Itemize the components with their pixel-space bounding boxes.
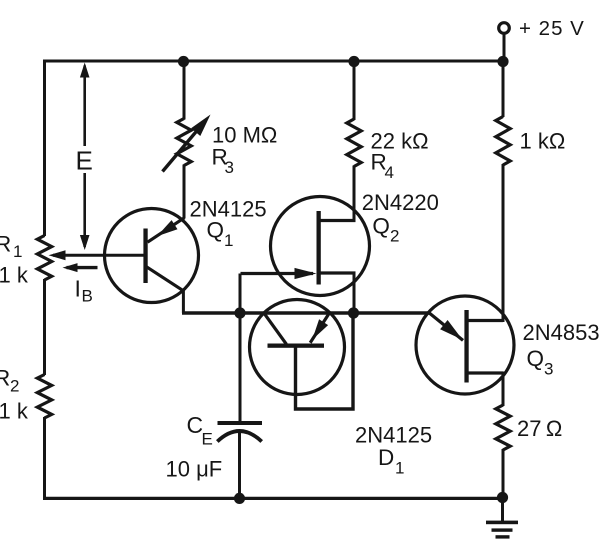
svg-text:B: B xyxy=(82,287,93,306)
svg-text:R: R xyxy=(0,366,10,391)
svg-text:3: 3 xyxy=(544,360,553,379)
ground xyxy=(486,498,518,539)
transistor Q2 channel bar xyxy=(317,211,321,285)
transistor Q3 circle xyxy=(416,296,514,394)
wire R3 upper xyxy=(183,61,186,120)
svg-text:4: 4 xyxy=(385,163,394,182)
node R4 top junction xyxy=(348,56,359,67)
svg-text:1: 1 xyxy=(13,242,22,261)
resistor R4 xyxy=(347,119,361,167)
wire D1 base loop xyxy=(296,313,354,409)
transistor Q1 circle xyxy=(105,209,199,303)
potentiometer R1 xyxy=(37,236,51,281)
wire R4 upper xyxy=(353,61,356,120)
transistor D1 base bar xyxy=(268,344,325,348)
svg-text:2N4125: 2N4125 xyxy=(190,197,267,222)
transistor Q3 base bar xyxy=(464,310,468,383)
node top-right junction xyxy=(497,56,508,67)
transistor D1 collector lead xyxy=(264,314,286,345)
node R3 top junction xyxy=(178,56,189,67)
wire Q2 source drop xyxy=(353,273,356,313)
transistor Q2 circle xyxy=(271,197,370,296)
wire capacitor to rail xyxy=(238,432,241,499)
svg-text:+ 25 V: + 25 V xyxy=(519,17,585,40)
transistor Q3 emitter lead xyxy=(429,313,463,341)
node gate junction xyxy=(234,307,245,318)
svg-text:2: 2 xyxy=(10,377,19,396)
wire Q3 base1 drop xyxy=(502,372,505,407)
wire bottom rail xyxy=(43,497,503,500)
svg-text:E: E xyxy=(202,430,213,449)
svg-text:2N4853: 2N4853 xyxy=(523,320,600,345)
arrow R3 wiper xyxy=(163,115,211,172)
wire right branch upper xyxy=(502,61,505,117)
wire R3 to Q1 emitter xyxy=(183,165,186,219)
node CE bottom junction xyxy=(234,493,245,504)
svg-text:2: 2 xyxy=(390,227,399,246)
transistor Q1 collector lead xyxy=(147,267,184,291)
svg-text:27 Ω: 27 Ω xyxy=(517,416,562,441)
wire top supply rail xyxy=(44,60,504,63)
resistor 1k xyxy=(496,117,510,166)
svg-text:Q: Q xyxy=(207,218,225,243)
svg-text:E: E xyxy=(76,146,93,176)
transistor Q3 base1 lead xyxy=(467,371,504,374)
wire left branch upper xyxy=(43,60,46,237)
svg-text:D: D xyxy=(378,445,394,470)
svg-text:1: 1 xyxy=(395,458,404,477)
svg-text:1 k: 1 k xyxy=(0,263,29,288)
resistor R2 xyxy=(37,375,51,419)
arrow IB base current xyxy=(63,263,98,272)
transistor Q1 base bar xyxy=(143,229,147,284)
wire 1k to Q3 base2 xyxy=(502,164,505,322)
svg-text:2N4220: 2N4220 xyxy=(362,190,439,215)
resistor 27 ohm xyxy=(496,405,510,450)
svg-text:1 kΩ: 1 kΩ xyxy=(520,129,566,154)
node Q2 source junction xyxy=(348,307,359,318)
transistor D1 circle xyxy=(250,300,345,395)
transistor Q2 source lead xyxy=(319,271,356,274)
wire terminal drop xyxy=(503,34,506,63)
svg-text:10 μF: 10 μF xyxy=(166,457,223,482)
svg-text:I: I xyxy=(75,276,81,302)
transistor D1 emitter lead xyxy=(310,313,329,343)
wire main node xyxy=(182,311,430,315)
transistor Q3 base2 lead xyxy=(467,319,504,322)
svg-text:1: 1 xyxy=(224,231,233,250)
svg-text:1 k: 1 k xyxy=(0,399,29,424)
wire 27ohm to ground xyxy=(502,449,505,498)
terminal +25V xyxy=(499,23,510,34)
arrow E voltage xyxy=(72,63,97,251)
transistor Q2 drain lead xyxy=(319,219,356,222)
svg-text:Q: Q xyxy=(527,346,545,371)
wire Q1 base to R1 wiper xyxy=(49,250,146,260)
svg-text:Q: Q xyxy=(372,214,390,239)
wire gate to capacitor xyxy=(239,274,242,422)
svg-text:2N4125: 2N4125 xyxy=(355,422,432,447)
wire Q2 gate xyxy=(241,268,317,279)
svg-text:3: 3 xyxy=(225,158,234,177)
transistor Q1 emitter lead xyxy=(148,218,185,242)
variable resistor R3 xyxy=(177,119,191,166)
svg-text:R: R xyxy=(0,232,11,257)
wire R4 to Q2 drain xyxy=(353,166,356,223)
wire left branch lower xyxy=(43,417,46,500)
wire left branch middle xyxy=(43,279,46,375)
node bottom-right junction xyxy=(497,492,508,503)
wire Q1 collector drop xyxy=(182,290,185,313)
capacitor CE xyxy=(217,421,262,442)
